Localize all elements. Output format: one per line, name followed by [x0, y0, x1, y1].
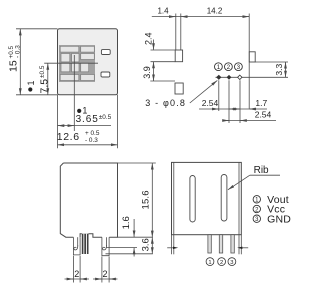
- pin 3: [238, 75, 242, 79]
- rear pin circles: [206, 258, 236, 266]
- pin number circles: [215, 63, 243, 71]
- pin width ext lines: [72, 256, 74, 283]
- left tab arrow mark: [167, 247, 173, 249]
- ext line top: [16, 28, 58, 30]
- svg-text:3.3: 3.3: [274, 64, 284, 76]
- legend pin 1: [253, 196, 260, 203]
- label 1.6 rotated: [121, 216, 132, 229]
- dimension 3.3: [285, 62, 287, 77]
- ext line top right: [118, 162, 156, 164]
- svg-text:15.6: 15.6: [140, 190, 151, 209]
- ext line 3.3 top: [255, 61, 288, 63]
- ext line 3.9 bottom: [150, 80, 175, 82]
- rib slot right: [221, 175, 227, 222]
- svg-text:12.6: 12.6: [57, 131, 80, 143]
- dimension 7.5: [47, 63, 49, 95]
- dimension 2 right: [93, 278, 118, 280]
- dimension 15: [19, 29, 21, 95]
- legend pin 3: [253, 215, 260, 222]
- label 3.3 rotated: [274, 64, 284, 76]
- slot right upper: [101, 50, 110, 55]
- pin 3 rear: [231, 235, 234, 253]
- pin row line: [216, 76, 289, 78]
- label 3.6 rotated: [140, 238, 151, 251]
- leader Rib: [228, 175, 250, 190]
- ext line hook level: [106, 247, 137, 249]
- svg-text:- 0.3: - 0.3: [15, 45, 22, 58]
- ext pair left post: [175, 14, 177, 51]
- leader Rib shoulder: [250, 174, 280, 176]
- body outline top view: [58, 29, 118, 95]
- label pin1 marker rotated: [26, 80, 36, 91]
- right tab arrow mark: [242, 247, 248, 249]
- svg-text:2: 2: [74, 269, 79, 279]
- svg-text:1.6: 1.6: [121, 216, 132, 229]
- dimension 1.6: [133, 219, 135, 237]
- svg-text:2: 2: [102, 269, 107, 279]
- dimension line 1.4 / 14.2: [152, 16, 249, 18]
- centerline horizontal: [44, 62, 98, 64]
- svg-text:1: 1: [208, 260, 211, 266]
- left mounting tab: [171, 235, 173, 255]
- post hole right: [249, 52, 255, 62]
- centerline vertical (pin1 axis): [73, 55, 75, 131]
- left pin hook: [74, 245, 78, 250]
- pin 2 rear: [219, 235, 222, 253]
- label 7.5 +-0.5 rotated: [38, 65, 50, 93]
- right pin: [102, 237, 109, 256]
- label 3.9 rotated: [142, 66, 152, 79]
- svg-text:3.65: 3.65: [76, 114, 99, 125]
- ext line body right down: [117, 95, 119, 149]
- pin 1: [216, 75, 221, 80]
- dimension 2 left: [65, 278, 90, 280]
- rib slot left: [190, 176, 195, 223]
- ext line body left down: [57, 95, 59, 149]
- svg-text:3.9: 3.9: [142, 66, 152, 79]
- label 15 +0.5/-0.3: [7, 45, 21, 72]
- slot right lower: [101, 72, 110, 77]
- svg-text:±0.5: ±0.5: [39, 65, 46, 78]
- legend pin 2: [253, 205, 260, 212]
- svg-text:2: 2: [220, 260, 223, 266]
- label 2.4 rotated: [144, 33, 154, 46]
- svg-text:- 0.3: - 0.3: [85, 137, 98, 144]
- ext line pin tip level: [106, 253, 153, 255]
- ext right edge: [248, 14, 250, 109]
- left pin: [73, 237, 80, 255]
- svg-text:14.2: 14.2: [207, 6, 223, 15]
- post hole left lower: [175, 83, 183, 94]
- svg-text:+ 0.5: + 0.5: [85, 130, 100, 137]
- svg-text:15: 15: [7, 60, 19, 72]
- body outline rear view: [172, 162, 242, 234]
- pin ext lines: [218, 80, 220, 111]
- cluster cells: [60, 46, 94, 80]
- dimension 2.4 stem: [153, 40, 155, 50]
- dimension 3.9: [153, 62, 155, 81]
- svg-text:7.5: 7.5: [38, 79, 50, 94]
- terminal cluster backdrop: [59, 45, 95, 82]
- ext line bottom: [16, 94, 58, 96]
- dimension 3.6: [151, 237, 153, 254]
- svg-text:1.7: 1.7: [255, 98, 267, 108]
- right mounting tab: [238, 235, 240, 255]
- ext line bottom edge right: [118, 236, 153, 238]
- post hole left upper: [175, 50, 182, 62]
- dimension 3.65: [58, 125, 112, 127]
- svg-text:2.4: 2.4: [144, 33, 154, 46]
- label 15.6 rotated: [140, 190, 151, 209]
- dimension 12.6: [58, 144, 118, 146]
- ext lines 2.4: [151, 49, 176, 51]
- svg-text:GND: GND: [267, 213, 291, 225]
- svg-text:3 - φ0.8: 3 - φ0.8: [145, 98, 186, 108]
- pin 2: [227, 75, 232, 80]
- svg-text:1: 1: [26, 80, 36, 85]
- svg-text:3.6: 3.6: [140, 238, 151, 251]
- svg-text:2.54: 2.54: [255, 110, 272, 120]
- svg-text:±0.5: ±0.5: [99, 114, 112, 121]
- body outline front view: [60, 163, 117, 237]
- svg-text:Rib: Rib: [254, 165, 269, 176]
- leader to pin 1: [190, 80, 218, 103]
- pin 1 rear: [208, 235, 211, 253]
- dimension 2.54 second: [223, 120, 277, 122]
- middle pin (sectioned): [82, 234, 89, 254]
- right pin hook: [103, 245, 107, 250]
- svg-text:1.4: 1.4: [157, 6, 169, 15]
- svg-text:2.54: 2.54: [202, 98, 219, 108]
- left wall inner line: [173, 162, 175, 234]
- label pin1 marker: [77, 109, 81, 113]
- dimension 15.6: [151, 163, 153, 237]
- dimension row 2.54 / 1.7: [199, 108, 267, 110]
- right wall inner line: [238, 162, 240, 234]
- svg-text:3: 3: [230, 260, 233, 266]
